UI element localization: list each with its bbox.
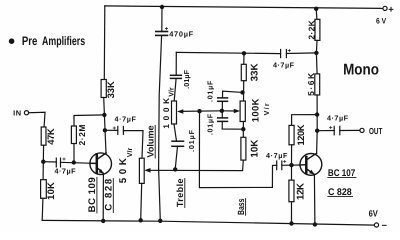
wire 2-2M riser bbox=[73, 144, 75, 163]
wire bottom rail bbox=[42, 220, 374, 225]
junction 470uF top bbox=[160, 5, 164, 9]
capacitor .01uF treble bottom bbox=[172, 140, 184, 142]
junction emitter2/rail bbox=[313, 222, 317, 226]
svg-text:IN: IN bbox=[13, 108, 22, 117]
capacitor 4.7uF node A bbox=[280, 50, 282, 58]
junction node A / 33K bass bbox=[242, 51, 246, 55]
svg-text:100K: 100K bbox=[249, 98, 260, 122]
resistor 33K bias bbox=[101, 80, 106, 98]
svg-text:47K: 47K bbox=[45, 128, 56, 145]
wire 12K to rail bbox=[291, 202, 293, 224]
svg-text:100K: 100K bbox=[162, 98, 171, 129]
terminal OUT bbox=[360, 128, 364, 132]
svg-text:C 828: C 828 bbox=[103, 178, 114, 211]
resistor 12K bbox=[289, 180, 294, 202]
title bullet bbox=[9, 38, 15, 44]
resistor 10K bbox=[41, 180, 47, 199]
wire collector to cap bbox=[105, 129, 118, 131]
wire 2-2K from rail bbox=[314, 7, 318, 11]
transistor Q1 BC109 bbox=[90, 153, 112, 175]
wire cap to base bbox=[61, 162, 97, 163]
capacitor .01uF treble top bbox=[171, 74, 182, 76]
resistor 10K bass bbox=[241, 137, 246, 160]
junction mid caps bbox=[220, 109, 224, 113]
svg-text:+: + bbox=[388, 5, 394, 16]
svg-text:12K: 12K bbox=[296, 183, 307, 200]
svg-text:Pre: Pre bbox=[22, 34, 38, 48]
wire 2-2K to junction bbox=[315, 40, 318, 53]
svg-text:+: + bbox=[329, 126, 333, 132]
resistor 120K bbox=[289, 125, 294, 144]
junction output tap bbox=[197, 109, 201, 113]
wire treble pot bottom to cap bbox=[174, 124, 177, 141]
capacitor 470uF bbox=[161, 7, 163, 32]
wire 47K to node bbox=[42, 145, 44, 162]
resistor 33K bass bbox=[241, 64, 246, 80]
wire node A top bbox=[176, 52, 280, 53]
svg-text:6 V: 6 V bbox=[376, 16, 387, 25]
wire cap to treble pot bbox=[174, 78, 176, 101]
capacitor 4.7uF stage2 input bbox=[276, 161, 278, 170]
capacitor 4.7uF coupling bbox=[117, 126, 119, 134]
svg-text:OUT: OUT bbox=[369, 126, 383, 136]
wire collector to out cap bbox=[317, 130, 334, 132]
junction emitter/rail bbox=[101, 219, 105, 223]
wire 2-2M to collector bbox=[74, 115, 104, 126]
svg-text:Mono: Mono bbox=[343, 61, 379, 78]
svg-text:33K: 33K bbox=[249, 63, 260, 81]
svg-text:33K: 33K bbox=[105, 81, 116, 98]
wire 33K bass top bbox=[243, 53, 245, 64]
wire cap to base bbox=[282, 164, 299, 166]
svg-text:470µF: 470µF bbox=[169, 29, 193, 38]
potentiometer 100K treble bbox=[172, 101, 177, 124]
svg-text:V/r: V/r bbox=[168, 87, 176, 97]
wire emitter to rail bbox=[102, 173, 104, 221]
svg-text:+: + bbox=[283, 160, 287, 166]
junction collector/cap bbox=[103, 128, 107, 132]
potentiometer 50K volume bbox=[139, 158, 144, 183]
wire 10K bbox=[42, 162, 44, 180]
junction 2-2M bottom bbox=[72, 160, 76, 164]
capacitor 4.7uF output bbox=[333, 126, 335, 135]
transistor Q2 BC107 bbox=[300, 153, 322, 175]
wire pot to 10K bbox=[242, 122, 244, 138]
wire volume bottom to rail bbox=[141, 183, 142, 220]
junction treble bottom / wiper line bbox=[173, 167, 177, 171]
terminal -6V bbox=[374, 223, 378, 227]
wire rail to 33K bbox=[103, 6, 106, 80]
svg-text:5·6K: 5·6K bbox=[306, 72, 316, 96]
wire 10K to rail bbox=[41, 198, 44, 220]
resistor 5-6K bbox=[315, 74, 320, 95]
svg-text:10K: 10K bbox=[45, 182, 56, 200]
terminal +6V bbox=[383, 6, 387, 10]
wire cap to volume wiper line bbox=[175, 146, 177, 169]
capacitor .01uF mid bottom bbox=[221, 111, 223, 118]
junction 2-2K/5-6K bbox=[314, 51, 318, 55]
svg-text:.01µF: .01µF bbox=[205, 80, 214, 102]
svg-text:4·7µF: 4·7µF bbox=[266, 151, 288, 160]
svg-text:4·7µF: 4·7µF bbox=[115, 115, 137, 124]
junction 470uF/rail bbox=[158, 219, 162, 223]
wire top rail bbox=[105, 6, 383, 8]
svg-text:.01µF: .01µF bbox=[205, 113, 214, 135]
svg-text:4·7µF: 4·7µF bbox=[273, 61, 295, 70]
wire 120K to base bbox=[291, 145, 293, 165]
wire output line to second stage bbox=[199, 111, 276, 187]
wire node to cap bbox=[43, 161, 56, 163]
capacitor .01uF mid top bbox=[221, 101, 223, 111]
svg-text:Amplifiers: Amplifiers bbox=[42, 34, 85, 48]
svg-text:Volume: Volume bbox=[146, 126, 156, 158]
wire to 5-6K bbox=[315, 53, 318, 74]
svg-text:.01µF: .01µF bbox=[187, 129, 196, 152]
wire 33K to collector bbox=[104, 98, 106, 154]
resistor 47K bbox=[41, 127, 46, 145]
junction collector/output bbox=[315, 129, 319, 133]
svg-text:+: + bbox=[165, 27, 169, 33]
svg-text:10K: 10K bbox=[249, 140, 260, 158]
junction volume/rail bbox=[139, 218, 143, 222]
wire 120K jog bbox=[292, 115, 318, 126]
junction 12K/rail bbox=[289, 221, 293, 225]
svg-text:2·2M: 2·2M bbox=[77, 125, 87, 146]
svg-text:6V: 6V bbox=[369, 209, 378, 219]
svg-text:V/r: V/r bbox=[126, 147, 134, 157]
junction bass pot top bbox=[240, 90, 244, 94]
svg-text:V/r: V/r bbox=[262, 103, 271, 115]
svg-text:4·7µF: 4·7µF bbox=[327, 113, 349, 122]
svg-text:4·7µF: 4·7µF bbox=[55, 167, 77, 176]
wire IN to 47K bbox=[29, 112, 45, 127]
svg-text:Treble: Treble bbox=[175, 178, 185, 207]
potentiometer 100K bass bbox=[240, 101, 245, 122]
wire 470uF to rail bottom bbox=[159, 35, 162, 220]
svg-text:120K: 120K bbox=[295, 124, 306, 145]
wire treble wiper line bbox=[181, 110, 222, 113]
junction collector/2-2M bbox=[102, 113, 106, 117]
resistor 2-2M bbox=[71, 126, 76, 144]
resistor 2-2K bbox=[315, 19, 320, 40]
svg-text:50K: 50K bbox=[118, 158, 129, 183]
svg-text:.01µF: .01µF bbox=[182, 69, 191, 89]
junction 120K top bbox=[315, 112, 319, 116]
capacitor 4.7uF input bbox=[55, 158, 57, 167]
wire 5-6K to collector bbox=[316, 95, 319, 153]
svg-text:−: − bbox=[382, 221, 388, 232]
junction 120K/base bbox=[289, 163, 293, 167]
wire treble column top bbox=[175, 52, 177, 75]
wire cap to OUT bbox=[340, 129, 360, 131]
wire cap to 5-6K top bbox=[286, 52, 316, 55]
svg-text:Bass: Bass bbox=[236, 199, 246, 215]
wire bass wiper bbox=[222, 110, 235, 112]
wire volume wiper to 10K bass bottom bbox=[148, 160, 243, 171]
junction bbox=[41, 160, 45, 164]
svg-text:+: + bbox=[113, 126, 117, 132]
wire emitter Q2 to rail bbox=[313, 174, 316, 224]
wire base to 12K bbox=[291, 165, 293, 180]
svg-text:2·2K: 2·2K bbox=[307, 19, 317, 39]
wire cap to volume pot bbox=[123, 131, 143, 159]
wire 33K to pot bbox=[243, 81, 245, 101]
junction bass pot bottom bbox=[241, 127, 245, 131]
